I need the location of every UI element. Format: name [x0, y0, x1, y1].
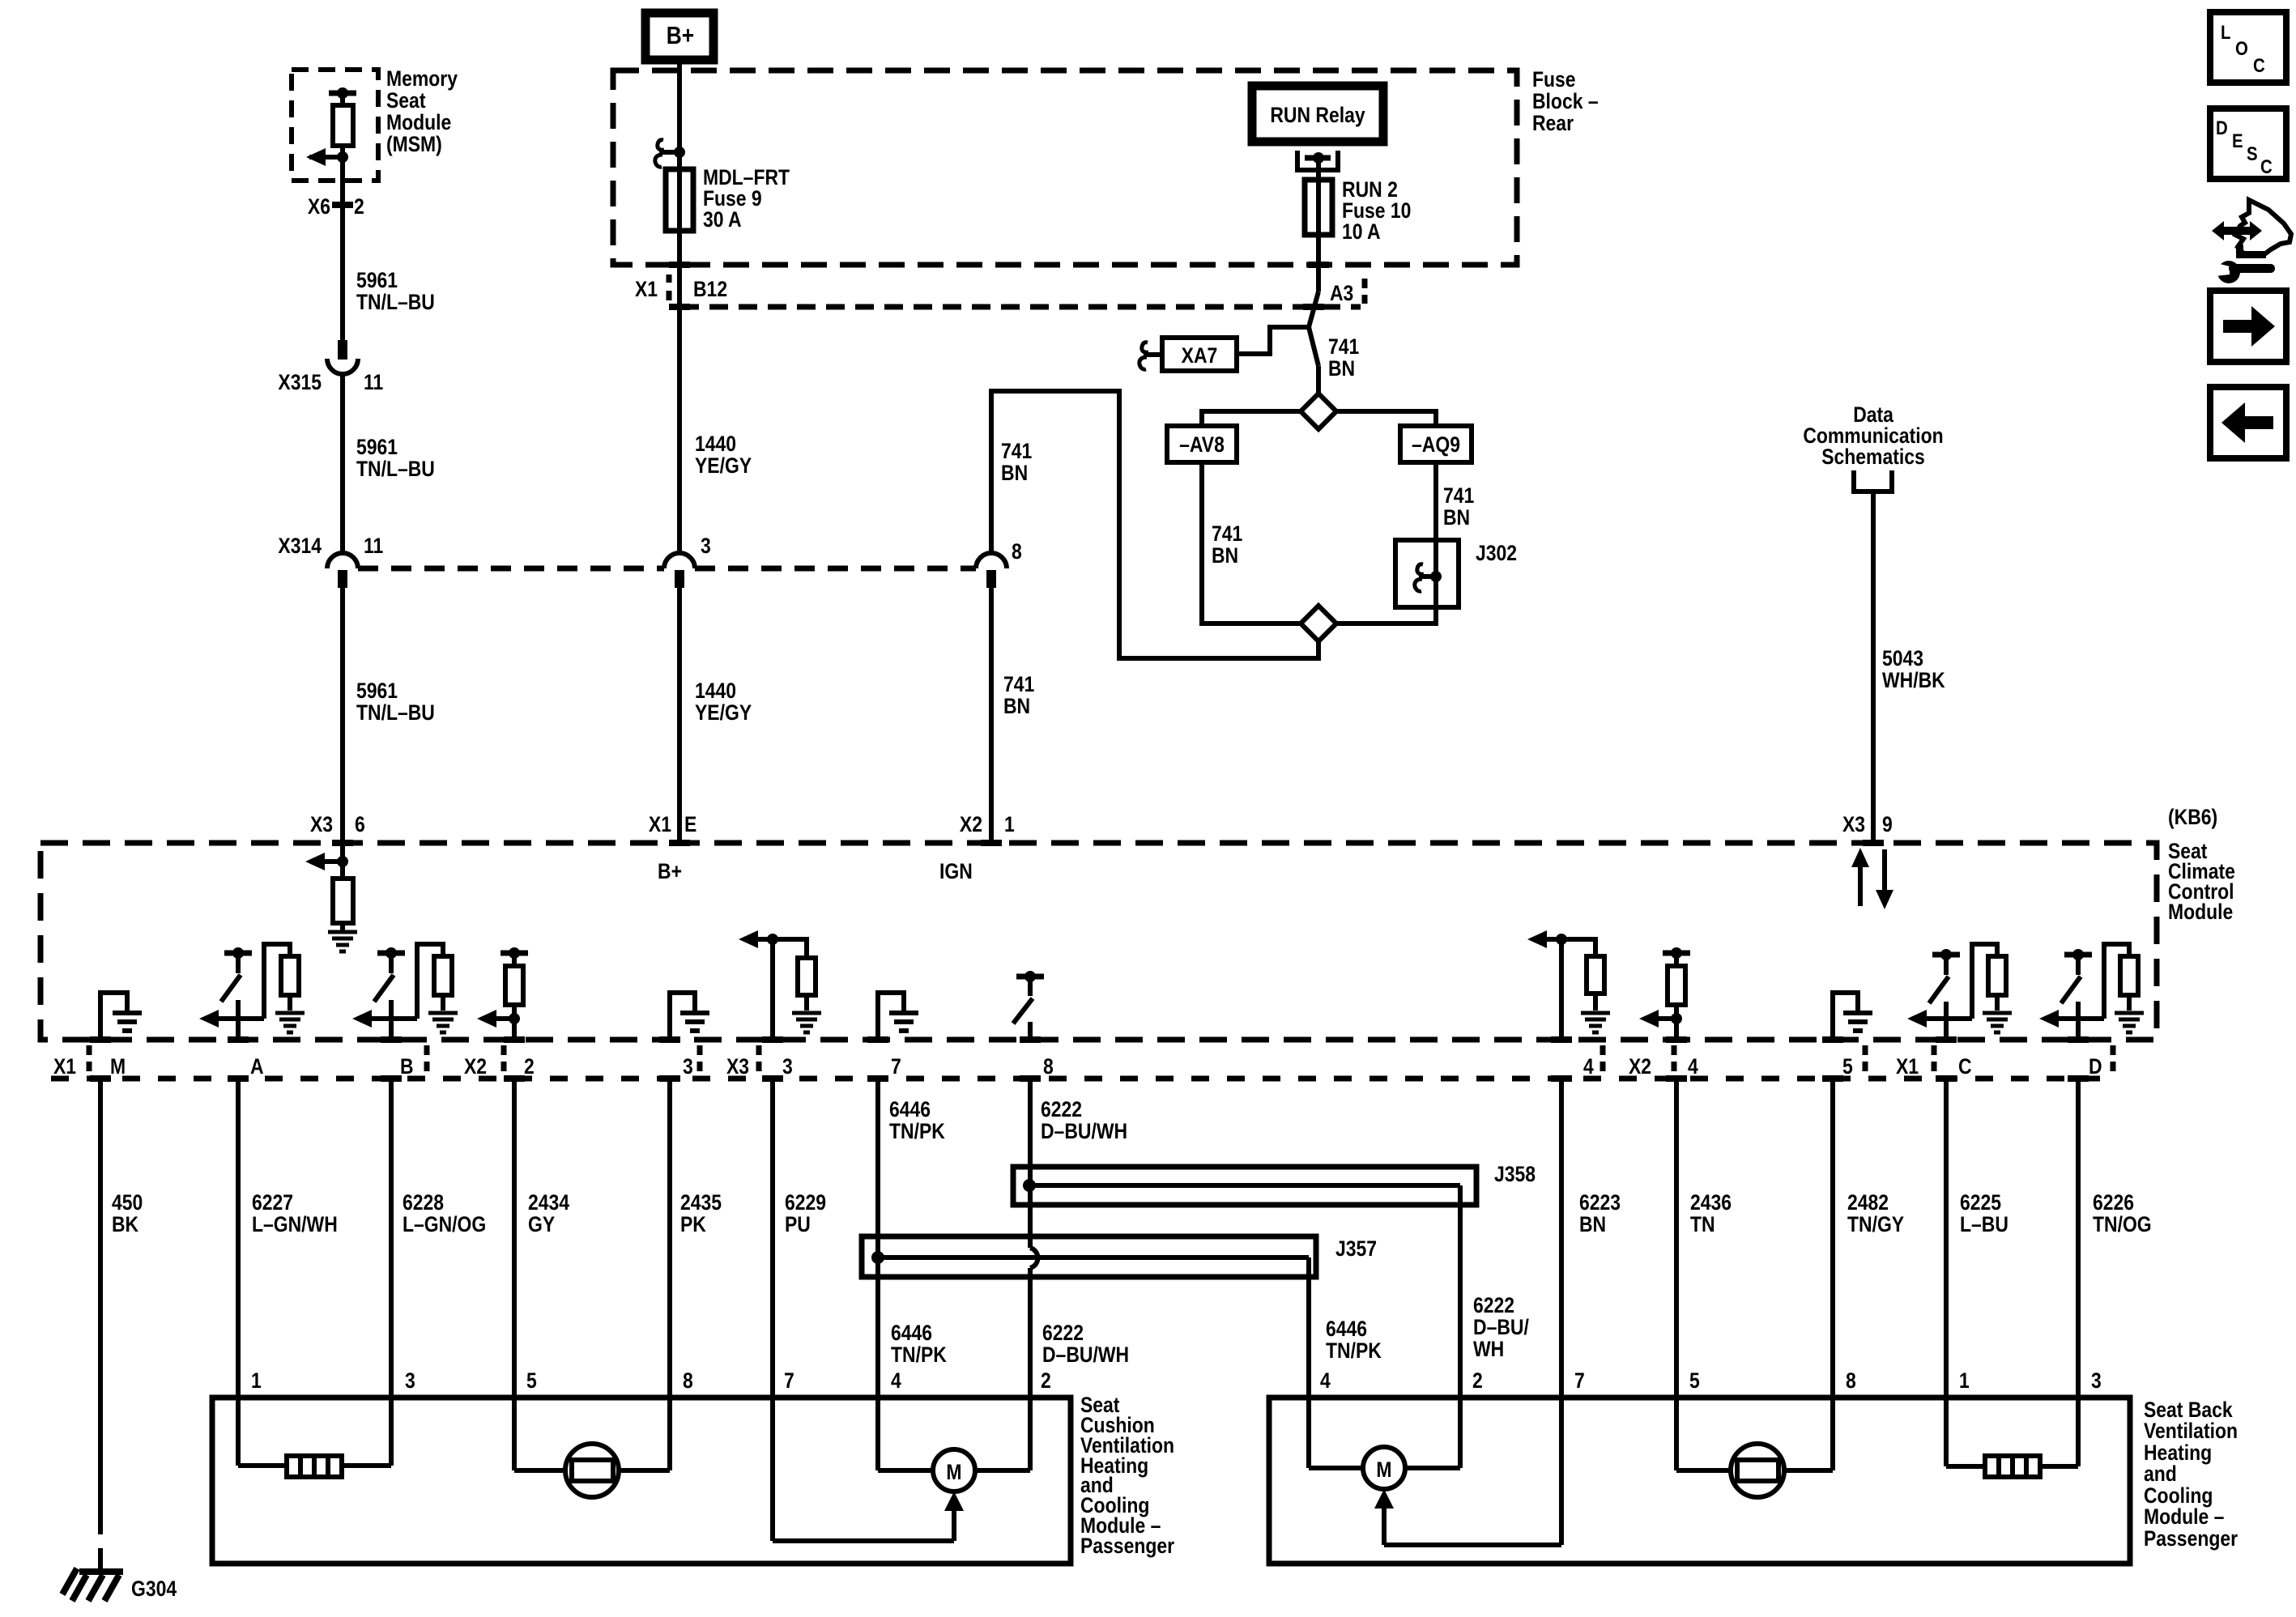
svg-text:9: 9: [1882, 812, 1893, 836]
wire label 5043 WH/BK: [1882, 646, 1945, 692]
node IGN inside module: [939, 859, 973, 883]
svg-text:2434: 2434: [528, 1190, 569, 1215]
Seat Back module label: [2144, 1398, 2238, 1551]
module internal: pin X3-3 input arrow: [739, 930, 778, 1040]
svg-text:X314: X314: [278, 534, 322, 558]
module internal: pin A pull resistor to ground: [264, 944, 305, 1032]
wire J302 to lower bus: [1336, 607, 1436, 623]
wire 6227 L-GN/WH: [238, 1079, 338, 1466]
svg-text:4: 4: [1320, 1368, 1331, 1393]
svg-text:J358: J358: [1494, 1162, 1536, 1186]
svg-text:30 A: 30 A: [703, 207, 742, 232]
svg-text:6: 6: [355, 812, 365, 836]
wire diamond to -AQ9: [1336, 411, 1436, 426]
svg-text:TN/PK: TN/PK: [889, 1119, 945, 1143]
svg-text:L: L: [2221, 21, 2230, 43]
svg-text:YE/GY: YE/GY: [695, 453, 752, 478]
svg-text:450: 450: [112, 1190, 143, 1215]
svg-text:3: 3: [782, 1054, 793, 1079]
svg-text:Fuse: Fuse: [1532, 67, 1576, 91]
svg-text:741: 741: [1003, 672, 1034, 696]
svg-text:IGN: IGN: [939, 859, 973, 883]
svg-text:10 A: 10 A: [1342, 219, 1381, 244]
svg-text:BN: BN: [1003, 694, 1030, 718]
svg-text:(KB6): (KB6): [2168, 805, 2217, 829]
svg-text:6446: 6446: [889, 1097, 931, 1121]
svg-text:1: 1: [1959, 1368, 1970, 1393]
svg-text:1440: 1440: [695, 679, 736, 703]
svg-text:B+: B+: [658, 859, 682, 883]
svg-text:L–GN/OG: L–GN/OG: [403, 1212, 486, 1236]
module internal: X3-6 input arrow: [305, 843, 348, 879]
svg-text:2: 2: [524, 1054, 535, 1079]
svg-text:8: 8: [1846, 1368, 1856, 1393]
module internal: pin X2-2 output arrow: [477, 1010, 520, 1028]
splice J302 box: [1395, 540, 1517, 607]
module internal: pin D output arrow: [2039, 1002, 2104, 1040]
svg-text:Module: Module: [2168, 900, 2233, 924]
svg-text:GY: GY: [528, 1212, 555, 1236]
Seat Cushion module label: [1080, 1393, 1174, 1558]
svg-text:O: O: [2235, 37, 2248, 59]
connector X315 (pin and cup): [327, 340, 358, 374]
svg-text:2482: 2482: [1847, 1190, 1889, 1215]
svg-text:and: and: [2144, 1462, 2177, 1486]
svg-text:6222: 6222: [1042, 1321, 1084, 1345]
svg-text:Module: Module: [386, 110, 451, 134]
wire 2436 TN: [1676, 1079, 1732, 1470]
svg-text:X3: X3: [1842, 812, 1865, 836]
seat cushion motor control line with arrow: [773, 1398, 964, 1541]
svg-text:2: 2: [354, 194, 364, 219]
icon next arrow box: [2210, 291, 2286, 362]
svg-text:C: C: [1958, 1054, 1972, 1079]
svg-text:1: 1: [1004, 812, 1015, 836]
module internal: ground under X3-6 resistor: [328, 932, 357, 951]
connector X315 labels: [278, 370, 383, 394]
module pin X3 9 labels: [1842, 812, 1893, 836]
splice diamond lower: [1301, 606, 1336, 641]
svg-text:X6: X6: [308, 194, 330, 219]
svg-text:Module –: Module –: [2144, 1504, 2224, 1529]
wire J357 to seat back motor: [1306, 1257, 1311, 1468]
module internal: pin C switch: [1929, 949, 1960, 1003]
svg-text:X2: X2: [960, 812, 982, 836]
wire lower diamond to IGN riser: [991, 391, 1318, 658]
svg-text:6223: 6223: [1579, 1190, 1621, 1215]
wire 6223 BN: [1561, 1079, 1621, 1545]
svg-text:5961: 5961: [356, 435, 398, 459]
wire 2435 PK: [670, 1079, 722, 1470]
svg-text:741: 741: [1443, 483, 1474, 508]
svg-text:X3: X3: [310, 812, 333, 836]
wire 450 BK: [100, 1079, 143, 1569]
svg-text:WH/BK: WH/BK: [1882, 668, 1945, 692]
dashed connector row X314 to pin 8: [358, 566, 976, 572]
svg-text:D–BU/: D–BU/: [1473, 1315, 1529, 1339]
svg-text:7: 7: [1574, 1368, 1585, 1393]
svg-text:–AV8: –AV8: [1179, 432, 1225, 457]
svg-text:2: 2: [1472, 1368, 1483, 1393]
connector A3 labels: [1330, 279, 1365, 305]
icon hand with double arrow: [2212, 200, 2291, 258]
svg-text:BN: BN: [1579, 1212, 1606, 1236]
svg-text:B+: B+: [667, 22, 694, 49]
wire 6226 TN/OG: [2078, 1079, 2152, 1466]
icon LOC box: [2210, 12, 2286, 83]
fuse block circuit breaker hook: [655, 140, 685, 167]
Memory Seat Module (MSM) dashed box: [292, 70, 378, 181]
svg-text:741: 741: [1212, 521, 1242, 546]
wire connector 3 to module pin X1-E: [669, 588, 690, 843]
wire label 5961 TN/L-BU (middle): [356, 435, 435, 481]
module internal: pin D switch: [2061, 949, 2092, 1003]
svg-text:WH: WH: [1473, 1337, 1504, 1361]
module internal: pin M ground: [100, 993, 142, 1040]
svg-text:6229: 6229: [785, 1190, 826, 1215]
svg-text:M: M: [1376, 1457, 1391, 1482]
icon DESC box: [2210, 109, 2286, 179]
svg-text:E: E: [684, 812, 696, 836]
svg-text:J357: J357: [1335, 1236, 1377, 1261]
B+ power terminal box: [645, 13, 714, 60]
seat cushion heater element: [238, 1398, 391, 1477]
splice diamond upper: [1301, 394, 1336, 429]
svg-text:A3: A3: [1330, 281, 1353, 305]
connector 8 (dome and pin): [976, 539, 1022, 588]
svg-text:7: 7: [891, 1054, 901, 1079]
svg-text:PU: PU: [785, 1212, 811, 1236]
XA7 stub wire: [1237, 327, 1309, 354]
svg-text:741: 741: [1001, 439, 1032, 463]
Seat Climate Control Module dashed box: [40, 843, 2157, 1040]
connector X1 B12 labels: [635, 274, 727, 301]
off-page bracket: [1854, 470, 1892, 491]
splice pack J357: [862, 1236, 1377, 1277]
svg-text:3: 3: [405, 1368, 415, 1393]
svg-text:2436: 2436: [1690, 1190, 1732, 1215]
wire fuse 9 to connector row: [669, 231, 690, 307]
svg-text:X2: X2: [464, 1054, 487, 1079]
svg-text:Rear: Rear: [1532, 111, 1574, 135]
svg-text:TN/PK: TN/PK: [1326, 1338, 1382, 1363]
wire B12 to connector 3: [677, 307, 682, 554]
svg-text:6226: 6226: [2093, 1190, 2134, 1215]
svg-text:BN: BN: [1001, 461, 1028, 485]
svg-text:Schematics: Schematics: [1821, 445, 1925, 469]
module internal: pin X2-3 ground: [670, 993, 709, 1040]
svg-text:G304: G304: [131, 1577, 177, 1601]
pin band labels: [53, 1054, 2102, 1079]
svg-text:11: 11: [364, 534, 383, 558]
svg-text:5961: 5961: [356, 268, 398, 292]
svg-text:XA7: XA7: [1182, 343, 1218, 368]
svg-text:L–BU: L–BU: [1960, 1212, 2008, 1236]
wire B+ into fuse block: [677, 60, 682, 169]
seat cushion blower motor M: [878, 1398, 1030, 1491]
node B+ inside module: [658, 859, 682, 883]
svg-text:8: 8: [683, 1368, 693, 1393]
wire 2482 TN/GY: [1833, 1079, 1904, 1470]
wire 6446 TN/PK upper label: [889, 1097, 945, 1143]
module internal: pin D pull resistor to ground: [2104, 944, 2144, 1032]
seat cushion module pin labels: [251, 1368, 1051, 1393]
module internal: pin A switch: [221, 947, 252, 1002]
wire label 741 BN below -AV8: [1212, 521, 1242, 568]
svg-text:D–BU/WH: D–BU/WH: [1042, 1343, 1129, 1367]
seat back motor control line with arrow: [1374, 1398, 1561, 1545]
fuse MDL-FRT Fuse 9 30 A: [666, 165, 790, 232]
svg-text:X1: X1: [1896, 1054, 1919, 1079]
svg-text:2435: 2435: [680, 1190, 722, 1215]
svg-text:6225: 6225: [1960, 1190, 2001, 1215]
svg-text:BN: BN: [1212, 543, 1238, 568]
Fuse Block - Rear label: [1532, 67, 1599, 135]
fuse block connector row dashed line: [680, 304, 1361, 310]
svg-text:6227: 6227: [252, 1190, 293, 1215]
connector X314 (dome and pin): [327, 553, 358, 588]
(KB6) Seat Climate Control Module label: [2168, 805, 2235, 924]
svg-text:A: A: [250, 1054, 264, 1079]
pin band wire ticks: [90, 1040, 2089, 1079]
svg-text:8: 8: [1012, 539, 1022, 564]
svg-text:M: M: [946, 1460, 961, 1484]
svg-text:1: 1: [251, 1368, 262, 1393]
svg-text:5: 5: [1689, 1368, 1700, 1393]
module internal: pin B switch: [374, 947, 405, 1002]
svg-text:2: 2: [1041, 1368, 1051, 1393]
wire label 741 BN right of -AQ9: [1443, 483, 1474, 530]
svg-text:X1: X1: [53, 1054, 76, 1079]
MSM internal output arrow and junction: [306, 148, 348, 166]
Seat Back module box: [1269, 1398, 2130, 1564]
module pin X1 E labels: [649, 812, 696, 836]
svg-text:D–BU/WH: D–BU/WH: [1041, 1119, 1127, 1143]
RUN Relay box: [1252, 86, 1383, 142]
svg-text:Seat: Seat: [386, 88, 426, 113]
module internal: pin X3-3 resistor to ground: [773, 939, 821, 1032]
svg-text:M: M: [110, 1054, 126, 1079]
module internal: pin C output arrow: [1907, 1002, 1972, 1040]
connector -AV8 box: [1167, 426, 1237, 462]
wire 6222 D-BU/WH with hop over J357 bus: [1023, 1079, 1037, 1470]
svg-text:6446: 6446: [1326, 1317, 1367, 1341]
wire MSM to X315: [332, 157, 353, 341]
svg-text:–AQ9: –AQ9: [1412, 432, 1460, 457]
svg-text:J302: J302: [1476, 541, 1517, 565]
MSM internal supply bar with junction dot: [329, 87, 356, 99]
serial data arrows inside module: [1851, 848, 1893, 909]
svg-text:11: 11: [364, 370, 383, 394]
wire -AQ9 to J302: [1433, 462, 1438, 540]
svg-text:TN/PK: TN/PK: [891, 1343, 947, 1367]
svg-text:S: S: [2247, 143, 2258, 164]
seat back blower motor M: [1309, 1398, 1460, 1489]
svg-text:Memory: Memory: [386, 66, 458, 91]
svg-text:Passenger: Passenger: [2144, 1526, 2238, 1551]
module internal: pin X3-4 input arrow: [1527, 930, 1567, 1040]
svg-text:YE/GY: YE/GY: [695, 700, 752, 725]
wire 6225 L-BU: [1946, 1079, 2008, 1466]
wire 6229 PU: [773, 1079, 826, 1541]
svg-text:B12: B12: [693, 277, 727, 301]
wire label 741 BN lower: [1003, 672, 1034, 718]
wire label 741 BN at A3: [1328, 334, 1359, 381]
svg-text:L–GN/WH: L–GN/WH: [252, 1212, 338, 1236]
svg-text:4: 4: [1583, 1054, 1594, 1079]
module internal: pin X2-5 ground: [1833, 993, 1872, 1040]
ground G304: [62, 1568, 177, 1601]
svg-text:4: 4: [891, 1368, 901, 1393]
wire label 5961 TN/L-BU (upper): [356, 268, 435, 314]
wire fuse 10 to A3: [1303, 235, 1329, 394]
svg-text:X315: X315: [278, 370, 322, 394]
module internal: pin X2-4 output arrow: [1639, 1010, 1682, 1028]
wire label 1440 YE/GY (lower): [695, 679, 752, 725]
svg-text:TN/L–BU: TN/L–BU: [356, 700, 435, 725]
svg-text:5: 5: [526, 1368, 537, 1393]
module internal: pin A output arrow: [199, 1000, 264, 1040]
svg-text:C: C: [2253, 54, 2265, 76]
svg-text:6222: 6222: [1041, 1097, 1082, 1121]
svg-text:B: B: [400, 1054, 414, 1079]
svg-text:7: 7: [784, 1368, 794, 1393]
svg-text:5: 5: [1842, 1054, 1853, 1079]
connector -AQ9 box: [1400, 426, 1472, 462]
wire 6222 D-BU/WH right label: [1473, 1293, 1529, 1361]
icon wrench: [2213, 261, 2275, 283]
seat back thermal sensor: [1676, 1398, 1833, 1497]
Fuse Block - Rear dashed box: [613, 70, 1517, 265]
wire 6446 TN/PK right label: [1326, 1317, 1382, 1363]
module internal: pin C pull resistor to ground: [1972, 944, 2012, 1032]
svg-text:TN/L–BU: TN/L–BU: [356, 457, 435, 481]
module internal: pin X3-7 ground: [878, 993, 918, 1040]
wire 6228 L-GN/OG: [391, 1079, 486, 1466]
wire 6446 TN/PK: [871, 1079, 884, 1470]
svg-text:(MSM): (MSM): [386, 132, 442, 156]
wire label 741 BN at IGN riser: [1001, 439, 1032, 485]
svg-text:3: 3: [701, 534, 711, 558]
wire 6222 D-BU/WH upper label: [1041, 1097, 1127, 1143]
module internal: pin X3-8 switch: [1013, 971, 1044, 1040]
svg-text:741: 741: [1328, 334, 1359, 359]
wire label 5961 TN/L-BU (lower): [356, 679, 435, 725]
seat cushion thermal sensor: [514, 1398, 670, 1497]
svg-text:Ventilation: Ventilation: [2144, 1419, 2238, 1443]
pin band separators: [89, 1045, 2113, 1071]
svg-text:RUN Relay: RUN Relay: [1270, 103, 1365, 127]
wire connector 8 to module pin X2-1: [981, 588, 1002, 843]
svg-text:X3: X3: [726, 1054, 749, 1079]
relay terminal socket: [1297, 151, 1338, 170]
splice pack J358: [1013, 1162, 1536, 1205]
svg-text:Block –: Block –: [1532, 89, 1599, 113]
seat back module pin labels: [1320, 1368, 2102, 1393]
module pin X3 6 labels: [310, 812, 365, 836]
svg-text:PK: PK: [680, 1212, 706, 1236]
svg-text:6228: 6228: [403, 1190, 444, 1215]
connector X314 labels: [278, 534, 383, 558]
svg-text:5043: 5043: [1882, 646, 1923, 670]
svg-text:6446: 6446: [891, 1321, 932, 1345]
svg-text:E: E: [2232, 130, 2243, 151]
svg-text:5961: 5961: [356, 679, 398, 703]
module internal: pin X2-4 supply resistor: [1663, 947, 1690, 1040]
wire 5043 to module pin X3-9: [1863, 491, 1884, 843]
module pin band bottom dotted line: [51, 1076, 2112, 1082]
svg-text:6222: 6222: [1473, 1293, 1514, 1317]
svg-text:3: 3: [2091, 1368, 2102, 1393]
seat back heater element: [1946, 1398, 2078, 1477]
svg-text:TN/L–BU: TN/L–BU: [356, 290, 435, 314]
module internal: X3-6 resistor to ground: [333, 879, 353, 930]
connector XA7 box: [1162, 338, 1237, 371]
svg-text:TN: TN: [1690, 1212, 1715, 1236]
svg-text:D: D: [2089, 1054, 2102, 1079]
Memory Seat Module (MSM) label: [386, 66, 458, 156]
connector X6 pin 2 labels: [308, 194, 364, 219]
svg-text:BN: BN: [1443, 505, 1470, 530]
module internal: pin B pull resistor to ground: [417, 944, 458, 1032]
module pin X2 1 labels: [960, 812, 1015, 836]
wire J358 to seat back motor: [1458, 1185, 1463, 1468]
svg-text:1440: 1440: [695, 432, 736, 456]
wire X315 to X314: [340, 374, 345, 554]
svg-text:4: 4: [1688, 1054, 1698, 1079]
svg-text:8: 8: [1043, 1054, 1054, 1079]
Seat Cushion module box: [212, 1398, 1071, 1564]
icon previous arrow box: [2210, 387, 2286, 458]
fuse RUN 2 Fuse 10 10 A: [1305, 158, 1411, 244]
wire 2434 GY: [514, 1079, 569, 1470]
svg-text:3: 3: [683, 1054, 693, 1079]
svg-text:BN: BN: [1328, 356, 1355, 381]
wire diamond to -AV8: [1202, 411, 1301, 426]
svg-text:TN/OG: TN/OG: [2093, 1212, 2152, 1236]
wire -AV8 to lower bus: [1202, 462, 1301, 623]
Data Communication Schematics label: [1803, 402, 1943, 469]
svg-text:D: D: [2216, 117, 2228, 138]
wire X314 to module pin X3-6: [332, 588, 353, 843]
module internal: pin X3-4 resistor to ground: [1561, 939, 1610, 1032]
XA7 hook terminal: [1139, 343, 1162, 369]
wire 6446 TN/PK lower label: [891, 1321, 947, 1367]
svg-text:BK: BK: [112, 1212, 138, 1236]
wire 6222 D-BU/WH lower label: [1042, 1321, 1129, 1367]
module internal: pin B output arrow: [352, 1000, 417, 1040]
wire label 1440 YE/GY (upper): [695, 432, 752, 478]
MSM internal resistor: [333, 93, 353, 157]
svg-text:C: C: [2260, 155, 2273, 177]
connector 3 (dome and pin): [664, 534, 711, 588]
svg-text:X2: X2: [1629, 1054, 1651, 1079]
svg-text:X1: X1: [649, 812, 671, 836]
svg-text:Passenger: Passenger: [1080, 1534, 1174, 1558]
module internal: pin X2-2 supply resistor: [501, 947, 528, 1040]
svg-text:TN/GY: TN/GY: [1847, 1212, 1904, 1236]
svg-text:X1: X1: [635, 277, 658, 301]
